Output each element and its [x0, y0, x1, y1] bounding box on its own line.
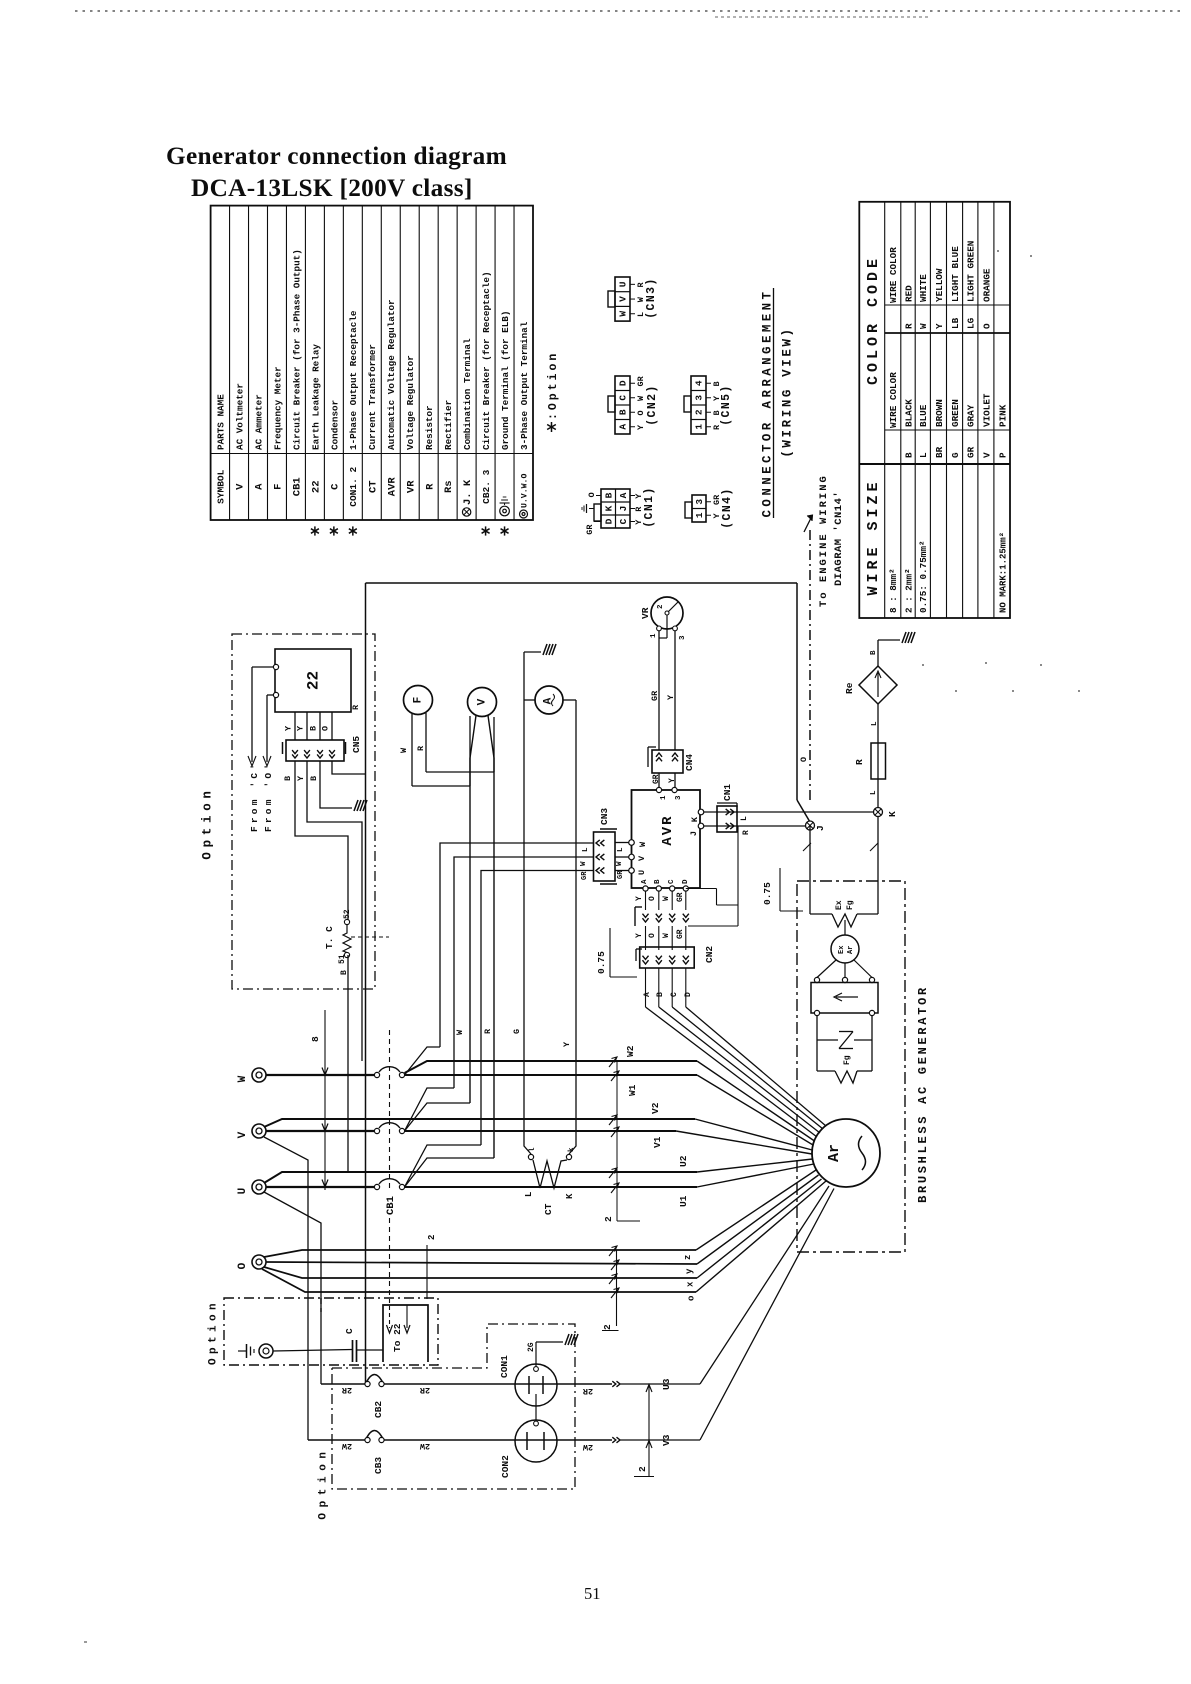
- CON1-CON2 link: [534, 1394, 539, 1426]
- node K (combination terminal): [874, 808, 899, 818]
- label CN2: [704, 946, 715, 963]
- svg-text:WIRE COLOR: WIRE COLOR: [888, 247, 899, 303]
- svg-text:2R: 2R: [582, 1386, 593, 1396]
- sense wire V-phase to CN3: [454, 857, 594, 1088]
- svg-text:L: L: [870, 790, 878, 795]
- svg-text:Fg: Fg: [846, 900, 855, 910]
- svg-text:LG: LG: [966, 317, 977, 329]
- svg-text:GR: GR: [581, 871, 589, 880]
- svg-text:Ground Terminal (for ELB): Ground Terminal (for ELB): [500, 311, 511, 450]
- svg-text:U3: U3: [661, 1378, 672, 1390]
- svg-text:CN4: CN4: [684, 754, 695, 771]
- svg-text:8 : 8mm²: 8 : 8mm²: [888, 568, 899, 613]
- svg-text:BROWN: BROWN: [934, 399, 945, 427]
- svg-text:B: B: [870, 650, 878, 655]
- svg-text:Y: Y: [562, 1041, 572, 1047]
- circuit breaker CB1 pole V: [374, 1123, 404, 1134]
- label U1: [678, 1195, 689, 1207]
- svg-text:V: V: [637, 855, 647, 861]
- svg-text:B: B: [283, 776, 293, 781]
- svg-text:V: V: [981, 452, 992, 458]
- svg-text:CB1: CB1: [385, 1196, 397, 1215]
- svg-text:CT: CT: [367, 480, 379, 493]
- arrow V3 line: [612, 1189, 834, 1443]
- wire ground terminal to condensor: [273, 1350, 352, 1352]
- wire CN5-2 Y down right and down: [307, 761, 362, 1061]
- svg-text:Voltage Regulator: Voltage Regulator: [405, 355, 416, 450]
- label O on enclosure edge wire: [799, 757, 809, 762]
- circuit breaker CB1 pole W: [374, 1067, 404, 1078]
- label U3: [661, 1378, 672, 1390]
- AVR bottom pins A B C D: [641, 879, 690, 891]
- svg-text:3: 3: [694, 499, 705, 505]
- svg-text:U: U: [637, 870, 647, 875]
- thermal cutout T.C: [324, 909, 352, 975]
- svg-text:52: 52: [343, 909, 352, 919]
- svg-text:W: W: [616, 861, 624, 866]
- resistor R: [854, 721, 886, 808]
- label CN1: [722, 784, 733, 801]
- relay 22 box: [275, 649, 351, 712]
- current transformer CT: [524, 1147, 576, 1215]
- wire U3-tap to CB2: [321, 1383, 366, 1385]
- label AVR: [660, 814, 676, 845]
- svg-text:GR: GR: [650, 690, 660, 701]
- relay 22 left pins: [273, 664, 278, 697]
- wire from 22 pin1 to From-C arrow: [248, 667, 273, 766]
- svg-text:AC Ammeter: AC Ammeter: [253, 394, 264, 450]
- svg-text:W: W: [618, 311, 629, 317]
- svg-text:B: B: [603, 492, 614, 498]
- svg-text:WIRE SIZE: WIRE SIZE: [865, 478, 882, 595]
- sense wire x: [264, 1179, 822, 1284]
- svg-text:C: C: [344, 1328, 355, 1334]
- svg-text:o: o: [687, 1296, 697, 1301]
- W after-breaker sense diagonal: [405, 1047, 441, 1075]
- svg-text:L: L: [582, 847, 590, 852]
- label BRUSHLESS AC GENERATOR: [916, 985, 930, 1203]
- svg-text:1: 1: [660, 795, 668, 800]
- svg-text:W: W: [662, 933, 671, 938]
- svg-text:GR: GR: [676, 929, 685, 939]
- CON1 ground 2G: [527, 1334, 578, 1367]
- svg-text:(WIRING VIEW): (WIRING VIEW): [780, 326, 794, 457]
- wire size callout 2 (sense): [602, 1250, 619, 1331]
- wire U terminal to CB1: [266, 1186, 375, 1188]
- bus wire W1: [405, 1071, 814, 1145]
- svg-text:2W: 2W: [341, 1441, 352, 1451]
- svg-text:D: D: [684, 992, 693, 997]
- voltage regulator VR: [640, 597, 687, 640]
- wire size callout 2 (receptacle): [634, 1385, 654, 1477]
- wire labels Y O W GR row2: [635, 929, 685, 939]
- svg-text:V: V: [235, 483, 247, 490]
- connector CN5 (arrangement view): [684, 376, 733, 434]
- svg-text:AVR: AVR: [386, 477, 398, 497]
- svg-text:Ar: Ar: [847, 946, 855, 954]
- label W1: [627, 1084, 638, 1096]
- terminal W: [237, 1068, 266, 1082]
- terminal V: [237, 1124, 266, 1138]
- svg-text:1: 1: [694, 512, 705, 518]
- svg-text:J: J: [815, 825, 826, 831]
- svg-text:CONNECTOR ARRANGEMENT: CONNECTOR ARRANGEMENT: [760, 289, 774, 518]
- svg-text:Y: Y: [668, 778, 677, 783]
- svg-text:0.75: 0.75: [596, 951, 607, 974]
- svg-text:W: W: [455, 1029, 465, 1035]
- svg-text:3: 3: [679, 635, 687, 640]
- svg-text:Combination Terminal: Combination Terminal: [462, 338, 473, 450]
- svg-text:DIAGRAM 'CN14': DIAGRAM 'CN14': [833, 491, 845, 586]
- wire CN5-3 B to ground: [320, 761, 352, 808]
- svg-text:COLOR CODE: COLOR CODE: [865, 255, 882, 385]
- svg-text:L: L: [617, 847, 625, 852]
- svg-text:Y: Y: [635, 896, 644, 901]
- svg-text:O: O: [648, 933, 657, 938]
- svg-text::Option: :Option: [547, 351, 560, 420]
- svg-text:C: C: [618, 395, 629, 401]
- svg-text:R: R: [854, 759, 865, 765]
- voltmeter V: [468, 688, 497, 759]
- svg-text:Circuit Breaker (for 3-Phase O: Circuit Breaker (for 3-Phase Output): [291, 249, 302, 450]
- svg-text:O: O: [981, 323, 992, 329]
- connector CN3 (arrangement view): [608, 277, 658, 321]
- 0.75 callout at CN2: [596, 928, 637, 977]
- svg-text:W: W: [237, 1075, 249, 1082]
- svg-text:A: A: [618, 424, 629, 430]
- svg-text:Y: Y: [296, 725, 306, 731]
- svg-text:22: 22: [310, 480, 322, 493]
- svg-text:From 'C': From 'C': [249, 761, 260, 832]
- svg-text:To 22: To 22: [392, 1323, 403, 1352]
- svg-text:R: R: [483, 1028, 493, 1034]
- wire CB2 to CON1 to arrow: [384, 1383, 612, 1385]
- svg-text:B: B: [654, 879, 662, 884]
- svg-text:O: O: [636, 410, 646, 415]
- terminal U: [237, 1180, 266, 1194]
- svg-text:Ex: Ex: [838, 945, 846, 954]
- connector CN3 (schematic): [594, 829, 618, 884]
- CN2 wires to generator: [646, 1007, 827, 1137]
- svg-text:J: J: [689, 831, 699, 836]
- generator enclosure (dash-dot box): [797, 881, 905, 1252]
- svg-text:k: k: [568, 1147, 576, 1152]
- svg-text:U: U: [618, 281, 629, 287]
- label CB1: [385, 1196, 397, 1215]
- V meter sense wires down: [470, 758, 494, 1158]
- exciter armature Ex Ar: [831, 920, 859, 963]
- svg-text:F: F: [413, 697, 425, 704]
- CN2 output wires with labels A B C D: [643, 968, 693, 1007]
- svg-text:2: 2: [637, 1466, 648, 1472]
- bus wire U2: [264, 1159, 813, 1183]
- svg-text:Ar: Ar: [826, 1144, 843, 1162]
- svg-text:AC Voltmeter: AC Voltmeter: [234, 383, 245, 450]
- svg-text:Generator connection diagram: Generator connection diagram: [166, 142, 507, 170]
- exciter to rotating rectifier wires: [814, 960, 874, 983]
- label U2: [678, 1155, 689, 1167]
- svg-text:(CN5): (CN5): [720, 384, 733, 426]
- bus wire V1: [405, 1127, 813, 1154]
- svg-text:L: L: [740, 816, 749, 821]
- svg-text:BLACK: BLACK: [903, 399, 914, 427]
- connector half above CN2: [635, 891, 689, 926]
- svg-text:A: A: [618, 492, 629, 498]
- svg-text:V3: V3: [661, 1434, 672, 1446]
- svg-text:2W: 2W: [419, 1441, 430, 1451]
- sense wire o: [262, 1181, 826, 1298]
- wire V3-tap to CB3: [308, 1439, 366, 1441]
- svg-text:CB2. 3: CB2. 3: [481, 469, 492, 504]
- svg-text:Automatic Voltage Regulator: Automatic Voltage Regulator: [386, 299, 397, 450]
- svg-text:O: O: [587, 492, 597, 497]
- svg-text:Resistor: Resistor: [424, 405, 435, 450]
- svg-text:RED: RED: [903, 285, 914, 302]
- wire W terminal to CB1: [266, 1074, 375, 1076]
- connector CN2 (schematic): [636, 926, 694, 968]
- svg-text:G: G: [512, 1029, 522, 1034]
- bus wire U1: [405, 1164, 814, 1193]
- svg-text:2: 2: [694, 409, 705, 415]
- svg-text:A: A: [254, 483, 266, 490]
- GR jumper loop to CN1 wire: [686, 826, 738, 926]
- svg-text:From 'O': From 'O': [263, 761, 274, 832]
- svg-text:Fg: Fg: [843, 1055, 852, 1065]
- svg-text:2R: 2R: [419, 1385, 430, 1395]
- svg-text:R: R: [742, 830, 751, 835]
- heading CONNECTOR ARRANGEMENT: [760, 288, 794, 518]
- AVR right pins K J: [689, 809, 704, 836]
- svg-text:CN2: CN2: [704, 946, 715, 963]
- wires CN4 to AVR pins: [659, 773, 675, 790]
- scan specks: [84, 250, 1080, 1643]
- svg-text:VR: VR: [405, 480, 417, 493]
- svg-text:W: W: [662, 896, 671, 901]
- svg-text:2: 2: [603, 1216, 614, 1222]
- generator stator Ar: [812, 1119, 880, 1187]
- wire labels Y Y B O above CN5: [284, 725, 331, 731]
- wire V terminal to CB1: [266, 1130, 375, 1132]
- svg-text:Rs: Rs: [443, 480, 455, 493]
- svg-text:1: 1: [694, 424, 705, 430]
- label Option (ground box): [208, 1299, 220, 1365]
- svg-text:PARTS NAME: PARTS NAME: [215, 394, 226, 450]
- svg-text:BR: BR: [934, 446, 945, 458]
- tap V terminal to V3: [264, 1137, 308, 1440]
- VR wires to CN4: [659, 631, 675, 750]
- connector CN2 (arrangement view): [608, 375, 659, 434]
- svg-text:VR: VR: [640, 607, 651, 619]
- svg-text:GR: GR: [636, 375, 646, 386]
- svg-text:W2: W2: [625, 1045, 636, 1057]
- svg-text:CON2: CON2: [500, 1455, 511, 1478]
- to-engine dash-dot boundary line: [804, 515, 813, 800]
- svg-text:V: V: [618, 296, 629, 302]
- svg-text:WIRE COLOR: WIRE COLOR: [888, 372, 899, 428]
- svg-text:2: 2: [427, 1235, 437, 1240]
- svg-text:NO MARK:1.25mm²: NO MARK:1.25mm²: [998, 532, 1008, 613]
- svg-text:Y: Y: [635, 933, 644, 938]
- svg-text:R: R: [351, 704, 361, 710]
- terminal O: [237, 1255, 266, 1269]
- wire J to node J: [704, 826, 806, 835]
- label V1: [652, 1136, 663, 1148]
- V after-breaker sense diagonals: [405, 1088, 471, 1131]
- svg-text:U1: U1: [678, 1195, 689, 1207]
- svg-text:K: K: [603, 505, 614, 511]
- svg-text:CB3: CB3: [373, 1457, 384, 1474]
- bus wire V2: [264, 1115, 812, 1150]
- svg-text:O: O: [799, 757, 809, 762]
- svg-text:1: 1: [650, 633, 658, 638]
- circuit breaker CB3: [365, 1431, 384, 1475]
- color code / wire size table frame: [859, 202, 1010, 618]
- svg-text:R: R: [424, 483, 436, 490]
- svg-text:W: W: [399, 747, 409, 753]
- svg-text:R: R: [903, 323, 914, 329]
- receptacle option box: [332, 1324, 575, 1489]
- svg-text:Y: Y: [636, 424, 646, 430]
- option box (ground terminal + condensor): [224, 1298, 438, 1365]
- svg-text:A: A: [643, 992, 652, 997]
- main field Fg with varistor: [817, 1016, 872, 1083]
- label CN3: [599, 808, 610, 825]
- svg-text:V: V: [237, 1131, 249, 1138]
- tap U terminal to U3: [264, 1192, 321, 1384]
- svg-text:BLUE: BLUE: [918, 404, 929, 427]
- sense wire y: [266, 1175, 819, 1270]
- main control enclosure border: [366, 583, 811, 1384]
- label Option (top left): [200, 786, 214, 859]
- svg-text:Y: Y: [934, 323, 945, 329]
- CN3 wires to AVR: [615, 843, 629, 880]
- wire CN5-4 O to enclosure edge: [332, 761, 366, 774]
- svg-text:C: C: [329, 483, 341, 490]
- svg-text:O: O: [321, 726, 331, 731]
- labels z y x o: [683, 1255, 697, 1301]
- svg-text:GR: GR: [617, 870, 625, 879]
- svg-text:PINK: PINK: [997, 404, 1008, 427]
- svg-text:WHITE: WHITE: [918, 274, 929, 302]
- svg-text:L: L: [918, 452, 929, 458]
- svg-text:K: K: [565, 1193, 575, 1199]
- svg-text:4: 4: [694, 380, 705, 386]
- bus wire W2: [405, 1057, 815, 1141]
- page number 51: [584, 1584, 601, 1603]
- svg-text:D: D: [682, 879, 690, 884]
- CN4 wire labels GR Y: [652, 774, 677, 784]
- svg-text:CON1. 2: CON1. 2: [348, 467, 359, 507]
- label V3: [661, 1434, 672, 1446]
- svg-text:V1: V1: [652, 1136, 663, 1148]
- wire size callout 2 (bus): [603, 1061, 640, 1222]
- svg-text:F: F: [273, 484, 285, 490]
- arrow U3 line: [612, 1186, 829, 1387]
- CB1 trip linkage dashed: [389, 1030, 391, 1299]
- svg-text:O: O: [648, 896, 657, 901]
- svg-text:2: 2: [602, 1324, 613, 1330]
- svg-text:CT: CT: [543, 1203, 554, 1215]
- svg-text:DCA-13LSK [200V class]: DCA-13LSK [200V class]: [191, 174, 473, 202]
- option box (earth leakage relay): [232, 634, 375, 989]
- rotating rectifier box: [811, 983, 878, 1016]
- label CN5: [351, 736, 362, 753]
- svg-text:(CN1): (CN1): [643, 486, 656, 528]
- svg-text:Current Transformer: Current Transformer: [367, 344, 378, 450]
- svg-text:W1: W1: [627, 1084, 638, 1096]
- AVR top pins: [656, 787, 683, 800]
- svg-text:Ex: Ex: [835, 900, 844, 910]
- svg-text:U2: U2: [678, 1155, 689, 1167]
- svg-text:CON1: CON1: [499, 1355, 510, 1378]
- svg-text:SYMBOL: SYMBOL: [215, 469, 226, 504]
- color code / wire size table text: [865, 241, 1008, 613]
- svg-text:LIGHT GREEN: LIGHT GREEN: [966, 241, 977, 302]
- svg-text:CN3: CN3: [599, 808, 610, 825]
- svg-text:Y: Y: [284, 725, 294, 731]
- svg-text:ORANGE: ORANGE: [981, 268, 992, 302]
- wire T.C down to U phase: [347, 955, 349, 1172]
- svg-text:BRUSHLESS AC GENERATOR: BRUSHLESS AC GENERATOR: [916, 985, 930, 1203]
- connector CN5 (schematic): [283, 740, 346, 761]
- wire K down to exciter: [877, 817, 879, 915]
- svg-text:GR: GR: [676, 892, 685, 902]
- svg-text:CB2: CB2: [373, 1401, 384, 1418]
- wire into To22: [427, 1235, 437, 1299]
- option note :Option: [547, 351, 560, 432]
- svg-text:2 : 2mm²: 2 : 2mm²: [903, 568, 914, 613]
- AVR left pins W V U: [629, 840, 648, 875]
- connector CN1 (schematic): [717, 803, 737, 832]
- svg-text:x: x: [686, 1281, 696, 1287]
- label To ENGINE WIRING DIAGRAM CN14: [818, 474, 845, 607]
- label From 'O': [263, 761, 274, 832]
- svg-text:YELLOW: YELLOW: [934, 268, 945, 302]
- U after-breaker sense diagonals: [405, 1145, 495, 1187]
- label W2: [625, 1045, 636, 1057]
- svg-text:U: U: [237, 1188, 249, 1195]
- svg-text:(CN3): (CN3): [645, 277, 658, 319]
- frequency meter F: [404, 686, 433, 787]
- sense wire z: [264, 1170, 816, 1257]
- ground terminal: [238, 1344, 273, 1358]
- 0.75 callout at J K wires: [762, 843, 878, 911]
- label Option (receptacle box): [318, 1446, 330, 1519]
- connector CN1 (arrangement view): [582, 486, 656, 534]
- circuit breaker CB1 pole U: [374, 1179, 404, 1190]
- sense wire U-phase to CN3: [481, 871, 594, 1146]
- svg-text:C: C: [668, 879, 676, 884]
- svg-text:B: B: [618, 409, 629, 415]
- receptacle CON2: [500, 1420, 557, 1478]
- connector CN4 (arrangement view): [685, 487, 734, 529]
- svg-text:K: K: [887, 811, 898, 817]
- parts table cell texts: [215, 249, 530, 535]
- F-V meter link wires: [412, 716, 494, 786]
- svg-text:Re: Re: [844, 682, 855, 694]
- label R at 22 box corner: [351, 704, 361, 710]
- label CN4: [684, 754, 695, 771]
- svg-text:(CN4): (CN4): [721, 487, 734, 529]
- ground (option box): [354, 800, 367, 811]
- AVR box: [632, 790, 701, 888]
- svg-text:8: 8: [310, 1036, 321, 1042]
- svg-text:B: B: [309, 776, 319, 781]
- svg-text:AVR: AVR: [660, 814, 676, 845]
- AVR output wire labels Y O W GR: [635, 892, 685, 902]
- labels 2W row: [341, 1441, 593, 1452]
- svg-text:GR: GR: [652, 774, 661, 784]
